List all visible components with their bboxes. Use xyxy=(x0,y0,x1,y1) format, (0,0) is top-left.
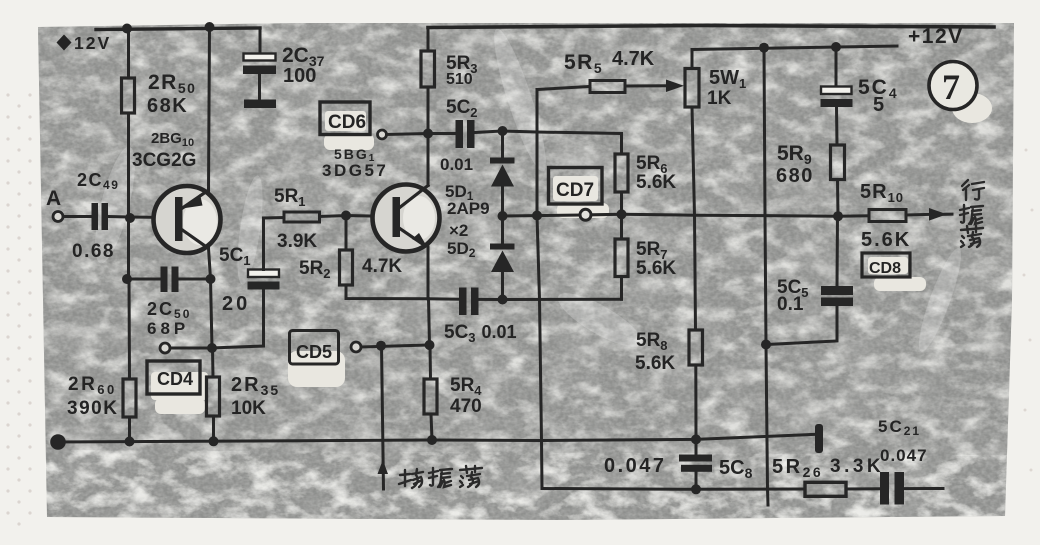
wire: 5C2 row corner down to 5R6 xyxy=(503,131,622,154)
wire: output row to 5R10 xyxy=(622,214,870,216)
wire: collector column down to CD4 row xyxy=(211,279,213,348)
svg-text:4.7K: 4.7K xyxy=(362,256,402,277)
wire: 2R50 column top xyxy=(127,29,130,79)
wire: bottom rail xyxy=(55,434,816,442)
node: bus to 2R50 junction xyxy=(122,24,132,34)
terminal CD6 circle xyxy=(378,130,387,139)
capacitor 2C50 xyxy=(161,267,179,293)
wire: base node down to 5R2 xyxy=(345,216,348,251)
svg-text:5.6K: 5.6K xyxy=(636,172,676,193)
svg-text:0.01: 0.01 xyxy=(440,155,473,174)
wire: CD6 terminal to node xyxy=(387,134,429,135)
wire: 5W1 bottom down through 5R8 column xyxy=(692,107,696,330)
node: CD5 row mid junction xyxy=(376,341,386,351)
svg-text:510: 510 xyxy=(446,71,473,88)
node: CD6/5C2/collector junction xyxy=(423,129,433,139)
wire: node to 5C2 xyxy=(428,132,456,135)
wire: Q1 collector down xyxy=(209,248,211,279)
wire: junction down to 5R7 xyxy=(620,214,623,239)
white patch under CD7 xyxy=(553,176,598,201)
resistor 2R60 xyxy=(123,379,136,417)
svg-text:5.6K: 5.6K xyxy=(635,353,675,374)
circled 7 symbol xyxy=(929,62,977,110)
wire: mid diode row to CD7 terminal xyxy=(503,215,581,216)
svg-text:CD5: CD5 xyxy=(296,342,332,362)
white patch under CD5 xyxy=(288,351,345,387)
wire: x765 +12V column xyxy=(764,48,768,505)
svg-text:20: 20 xyxy=(222,293,250,315)
wire: 5W1 top to +12V rail corner xyxy=(692,46,897,69)
resistor 5R9 xyxy=(831,145,845,180)
wire: bus corner down to 2C37 xyxy=(259,28,262,54)
resistor 5R6 xyxy=(615,154,628,192)
right margin faint dots xyxy=(1023,149,1034,472)
svg-text:10K: 10K xyxy=(231,398,266,419)
node: 2R35 bottom junction xyxy=(209,436,219,446)
capacitor 5C5 xyxy=(821,286,853,306)
label +12V left xyxy=(57,33,112,53)
text 振 vertical xyxy=(960,205,983,224)
capacitor 5C8 xyxy=(679,439,712,489)
wire: 2C50 right lead xyxy=(179,278,211,281)
node: 2R60 bottom rail junction xyxy=(125,437,135,447)
box CD5 xyxy=(290,331,339,365)
wire: emitter row to 5C3 xyxy=(428,297,459,300)
wire: bus corner down to 5R3 xyxy=(427,28,430,52)
text 荡 (swing) xyxy=(460,466,482,487)
wire: output node down to 5C5 xyxy=(836,216,840,286)
resistor 5R3 xyxy=(421,51,435,87)
terminal: bottom-left input xyxy=(52,436,65,449)
svg-text:7: 7 xyxy=(942,67,960,107)
svg-text:0.68: 0.68 xyxy=(72,241,115,262)
resistor 5R7 xyxy=(615,239,628,277)
node: mid-diode to CD7 row junction at x537 xyxy=(532,211,542,221)
node: 5R9 bottom junction xyxy=(833,211,843,221)
wire: base node down to 2C50 row xyxy=(127,217,130,279)
box CD6 xyxy=(320,102,370,135)
wire: 5C21 output xyxy=(904,487,943,490)
wire: 2R35 to bottom rail xyxy=(212,416,215,441)
node: 2C50 right junction xyxy=(206,274,216,284)
svg-text:3DG57: 3DG57 xyxy=(322,161,388,180)
capacitor 5C2 xyxy=(456,120,475,148)
node: 5D2 bottom junction xyxy=(498,295,508,305)
wire: 5R6 to junction xyxy=(620,192,623,214)
terminal A input circle xyxy=(53,212,63,222)
node: rail junction x836 xyxy=(831,42,841,52)
capacitor 5C3 xyxy=(459,288,479,316)
node: 5R6/5R7 junction xyxy=(617,209,627,219)
wire: 5R9 to output row xyxy=(836,180,840,217)
wire: 5C1 top up and right to 5R1 xyxy=(264,218,285,270)
wire: node down to 5D1 xyxy=(501,131,504,158)
svg-text:CD8: CD8 xyxy=(869,260,901,277)
left margin halftone dots xyxy=(6,93,31,525)
wire: 5R5 branch corner at x537 xyxy=(536,90,539,216)
wire: base node to Q1 base xyxy=(129,216,177,220)
white crescent by circled 7 xyxy=(952,93,992,123)
text 行 vertical (line) xyxy=(962,180,984,200)
node: 2C50 left junction xyxy=(122,274,132,284)
bottom edge mottle xyxy=(45,450,1008,520)
text 场 (field) xyxy=(399,469,423,488)
capacitor 2C49 xyxy=(92,203,109,230)
node: 5R4 bottom junction xyxy=(427,435,437,445)
white patch under CD8 xyxy=(868,257,908,274)
svg-text:5: 5 xyxy=(873,94,884,116)
text 振 (oscillate) xyxy=(429,468,452,487)
svg-text:3CG2G: 3CG2G xyxy=(132,150,196,171)
svg-text:0.047: 0.047 xyxy=(880,446,928,465)
wire: field osc line down xyxy=(382,346,384,489)
wire: 5R3 to CD6 node xyxy=(427,87,430,134)
node: 5C2/5D1 junction xyxy=(498,126,508,136)
wire: 5D1 to mid node xyxy=(501,187,504,217)
transistor Q1 2BG10/3CG2G xyxy=(154,186,221,253)
svg-text:×2: ×2 xyxy=(449,221,468,240)
box CD7 xyxy=(549,168,603,205)
svg-text:A: A xyxy=(46,187,61,210)
svg-text:680: 680 xyxy=(776,165,814,187)
thick bar terminal above 5R26 xyxy=(815,424,823,453)
wire: 2R50 to base node xyxy=(127,113,130,217)
svg-text:12V: 12V xyxy=(74,33,111,53)
resistor 2R50 xyxy=(122,78,135,113)
capacitor 5C21 xyxy=(880,472,904,505)
node: diode mid junction xyxy=(498,211,508,221)
svg-text:100: 100 xyxy=(283,65,316,87)
svg-text:CD6: CD6 xyxy=(328,112,366,133)
white patch under CD6 xyxy=(325,111,366,131)
capacitor 5C1 xyxy=(248,270,280,290)
wire: 2C50 left lead xyxy=(129,278,161,281)
node: 5C8 bottom junction on row2 xyxy=(691,484,701,494)
wire: 2R60 to bottom rail xyxy=(128,417,131,442)
wire: CD5 terminal to junctions xyxy=(361,345,430,347)
wire: 5C3 to 5D2 node and to 5R7 corner xyxy=(479,298,622,301)
wire: mid node down to 5D2 xyxy=(501,216,504,244)
node: CD4 row junction xyxy=(207,343,217,353)
capacitor 2C37 xyxy=(243,54,276,109)
svg-text:390K: 390K xyxy=(67,398,118,419)
resistor 5R1 xyxy=(284,212,320,222)
wire: 5R2 bottom to emitter row xyxy=(346,285,428,299)
potentiometer 5W1 xyxy=(685,69,699,108)
wire: node down to Q2 collector xyxy=(427,134,430,186)
wire: 5R5 right lead with arrow to 5W1 xyxy=(625,84,668,87)
wire: Q2 base wire xyxy=(346,216,393,217)
svg-text:68K: 68K xyxy=(147,95,188,117)
resistor 2R35 xyxy=(207,377,220,416)
box CD4 xyxy=(147,361,200,394)
wire: 5R1 to Q2 base node xyxy=(320,216,347,217)
crumple veins xyxy=(87,25,968,356)
svg-text:0.1: 0.1 xyxy=(777,294,804,315)
wire: CD7 row to 5R6 junction xyxy=(591,213,622,217)
wire: emitter column down to CD5 row xyxy=(429,299,430,345)
svg-text:4.7K: 4.7K xyxy=(612,48,655,70)
node: base junction xyxy=(125,213,135,223)
node: bus to Q1 emitter junction xyxy=(205,22,215,32)
terminal CD4 circle xyxy=(160,343,170,353)
wire: 5R7 bottom corner up xyxy=(620,277,623,300)
svg-text:5.6K: 5.6K xyxy=(861,229,911,251)
node: Q2 base node xyxy=(341,211,351,221)
wire: 5C4 to 5R9 xyxy=(835,107,839,145)
diode 5D1 2AP9 xyxy=(490,158,515,187)
resistor 5R8 xyxy=(689,330,703,365)
node: 5C8 top junction on bottom rail xyxy=(691,434,701,444)
wire: CD4 terminal to junction xyxy=(170,347,212,350)
resistor 5R4 xyxy=(424,379,437,414)
node: 5C5 corner junction xyxy=(761,340,771,350)
wire: A to 2C49 xyxy=(63,215,91,218)
resistor 5R2 xyxy=(340,250,353,285)
wire: 5R26 to 5C21 xyxy=(846,487,880,490)
svg-text:+12V: +12V xyxy=(908,25,964,48)
terminal CD7 circle xyxy=(580,209,591,220)
wire: 5R4 to bottom rail xyxy=(431,414,432,440)
text 荡 vertical xyxy=(961,226,983,247)
wire: left +12V bus xyxy=(96,28,260,30)
wire: junction down to 2R35 xyxy=(211,348,215,377)
wire: down to 5R4 xyxy=(429,345,433,379)
wire: 2C49 to base node xyxy=(108,215,129,219)
wire: 5R5 left lead xyxy=(537,87,590,90)
svg-text:68P: 68P xyxy=(147,319,189,338)
svg-text:CD7: CD7 xyxy=(556,180,594,201)
terminal CD5 circle xyxy=(351,342,361,352)
wire: Q1 emitter up to bus xyxy=(209,27,210,191)
wire: 5R8 to bottom rail xyxy=(694,365,697,439)
resistor 5R5 xyxy=(590,81,625,93)
capacitor 5C4 xyxy=(821,87,853,108)
svg-text:1K: 1K xyxy=(707,88,732,109)
wire: 5R10 output with arrow xyxy=(906,213,933,217)
wire: top main bus xyxy=(428,26,994,28)
wire: x836 rail to 5C4 xyxy=(835,47,838,87)
wire: x537 down through rows to row2 corner xyxy=(537,216,542,489)
wire: 5C5 bottom L to x765 xyxy=(766,306,837,345)
node: CD5 row right junction xyxy=(425,340,435,350)
diode 5D2 2AP9 xyxy=(490,244,515,273)
svg-text:3.9K: 3.9K xyxy=(277,231,317,252)
resistor 5R26 xyxy=(805,482,846,496)
wire: 5C2 right to diode node xyxy=(475,131,503,133)
node: rail junction x764 xyxy=(759,43,769,53)
wire: row2 xyxy=(542,487,805,491)
wire: 5C1 bottom down, left to CD4 row junction xyxy=(212,290,264,349)
wire: Q2 emitter down xyxy=(427,247,430,299)
wire: 5D2 to emitter row xyxy=(501,272,504,300)
transistor Q2 5BG1/3DG57 xyxy=(373,185,440,252)
wire: down to 2R60 xyxy=(128,279,132,379)
white patch under CD4 xyxy=(151,372,208,400)
svg-text:3.3K: 3.3K xyxy=(830,456,884,477)
svg-text:5.6K: 5.6K xyxy=(636,258,676,279)
svg-text:CD4: CD4 xyxy=(157,369,193,389)
arrowhead on field osc line xyxy=(378,460,389,474)
box CD8 xyxy=(862,253,910,277)
svg-text:2AP9: 2AP9 xyxy=(447,199,490,218)
resistor 5R10 xyxy=(869,210,906,222)
svg-text:470: 470 xyxy=(450,396,482,417)
svg-text:0.047: 0.047 xyxy=(604,455,667,477)
